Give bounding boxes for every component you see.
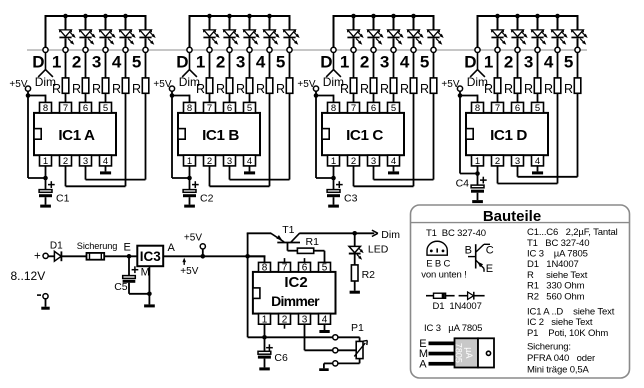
net Dim stub block C <box>333 53 335 70</box>
node bus junction B4 <box>267 14 272 19</box>
node bus junction A1 <box>63 14 68 19</box>
svg-text:+5V: +5V <box>184 233 202 244</box>
svg-text:5: 5 <box>103 103 108 114</box>
wire top supply bus block D <box>478 15 578 17</box>
node bus junction D2 <box>515 14 520 19</box>
wire LED4 cathode block B <box>269 38 271 47</box>
svg-text:4: 4 <box>322 314 328 325</box>
resistor R2 <box>351 265 358 281</box>
node terminal 2 block A <box>83 47 88 52</box>
svg-text:6: 6 <box>302 263 308 274</box>
node terminal 4 block C <box>411 47 416 52</box>
wire terminal 3 to resistor block C <box>393 53 395 78</box>
node terminal 2 block C <box>371 47 376 52</box>
net Dim stub block A <box>45 53 47 70</box>
svg-text:R: R <box>544 82 553 96</box>
wire IC3 M pin down <box>148 266 150 304</box>
svg-text:1: 1 <box>187 156 192 167</box>
wire pin3 IC2 to wiper <box>304 324 306 350</box>
wire LED3 anode block A <box>105 15 107 30</box>
node terminal 3 block B <box>247 47 252 52</box>
wire resistor col5 to pin3 block B <box>289 93 291 179</box>
capacitor C1 <box>45 178 47 190</box>
node P1 wiper terminal <box>333 348 338 353</box>
svg-text:R: R <box>276 82 285 96</box>
IC2 pin-1 notch <box>253 288 260 299</box>
wire resistor 2 to pin block D <box>517 93 519 102</box>
IC1 D pin-1 notch <box>466 129 473 140</box>
svg-text:4: 4 <box>103 156 108 167</box>
wire terminal 4 to resistor block D <box>557 53 559 78</box>
svg-text:IC 3 µA 7805: IC 3 µA 7805 <box>527 249 588 260</box>
node bus junction B1 <box>207 14 212 19</box>
svg-text:D: D <box>464 53 476 72</box>
svg-text:3: 3 <box>236 53 245 72</box>
LED D3 block C <box>388 30 400 37</box>
svg-text:7805: 7805 <box>454 343 464 363</box>
wire pin1 down block A <box>45 166 47 178</box>
pin 2 IC1 B <box>204 155 216 166</box>
node terminal D block D <box>475 47 480 52</box>
node bus junction C2 <box>371 14 376 19</box>
wire LED1 cathode block A <box>65 38 67 47</box>
wire LED1 cathode block C <box>353 38 355 47</box>
svg-text:1: 1 <box>196 53 205 72</box>
capacitor C5 <box>128 256 130 275</box>
node bus junction B2 <box>227 14 232 19</box>
wire +5V to pin8 IC2 <box>248 255 266 257</box>
pin 7 IC1 B <box>204 102 216 113</box>
wire LED2 cathode block B <box>229 38 231 47</box>
svg-text:C2: C2 <box>200 193 214 205</box>
LED D2 block D <box>512 30 524 37</box>
svg-text:1: 1 <box>484 53 493 72</box>
svg-text:D: D <box>320 53 332 72</box>
ground IC3/C5 <box>144 304 155 307</box>
svg-text:von unten !: von unten ! <box>421 270 466 281</box>
wire resistor 1 to pin block D <box>497 93 499 102</box>
wire resistor 1 to pin block A <box>65 93 67 102</box>
wire LED3 cathode block D <box>537 38 539 47</box>
pin 4 IC1 A <box>100 155 112 166</box>
LED D3 block B <box>244 30 256 37</box>
pin 8 IC1 D <box>472 102 484 113</box>
svg-text:2: 2 <box>360 53 369 72</box>
svg-text:+: + <box>34 251 41 263</box>
node terminal 3 block A <box>103 47 108 52</box>
LED D5 block C <box>428 30 440 37</box>
wire LED to R2 <box>354 255 356 265</box>
wire +5V to pin8 block B <box>172 95 190 97</box>
LED D2 block C <box>368 30 380 37</box>
svg-text:5: 5 <box>247 103 252 114</box>
stub pin2 IC2 <box>284 324 286 329</box>
node terminal 5 block A <box>143 47 148 52</box>
wire +5V rail block D <box>459 96 461 174</box>
pin 4 IC1 B <box>244 155 256 166</box>
wire LED4 cathode block A <box>125 38 127 47</box>
svg-text:PFRA 040 oder: PFRA 040 oder <box>527 353 595 364</box>
wire terminal 5 to resistor block B <box>289 53 291 78</box>
wire terminal 5 to resistor block A <box>145 53 147 78</box>
LED D3 block D <box>532 30 544 37</box>
diode D1 package drawing <box>426 295 434 297</box>
svg-text:R: R <box>112 82 121 96</box>
svg-text:1: 1 <box>340 53 349 72</box>
svg-text:IC1 A: IC1 A <box>58 127 95 144</box>
svg-text:C3: C3 <box>344 193 358 205</box>
wire trunk to P1 top <box>248 336 333 338</box>
pin 6 IC1 A <box>80 102 92 113</box>
svg-text:C6: C6 <box>274 352 288 364</box>
wire top supply bus block A <box>46 15 146 17</box>
svg-text:5: 5 <box>535 103 540 114</box>
svg-text:2: 2 <box>63 156 68 167</box>
ground pin4 block D <box>537 166 539 172</box>
wire D column riser block A <box>45 15 47 47</box>
resistor R (col 5) block D <box>574 78 581 93</box>
wire LED5 cathode block A <box>145 38 147 47</box>
wire pin1 down block D <box>477 166 479 174</box>
capacitor C2 <box>189 178 191 190</box>
wire D column riser block B <box>189 15 191 47</box>
wire terminal 5 to resistor block D <box>577 53 579 78</box>
wire LED1 cathode block D <box>497 38 499 47</box>
wire LED2 cathode block A <box>85 38 87 47</box>
node terminal 4 block B <box>267 47 272 52</box>
svg-text:R: R <box>340 82 349 96</box>
wire - to ground <box>45 299 47 307</box>
node terminal 5 block D <box>575 47 580 52</box>
wire LED5 cathode block B <box>289 38 291 47</box>
node bus junction B3 <box>247 14 252 19</box>
node M ground junction <box>147 292 152 297</box>
svg-text:P1: P1 <box>351 322 364 334</box>
wire resistor col5 to pin3 block D <box>577 93 579 177</box>
node bus junction A3 <box>103 14 108 19</box>
svg-text:B: B <box>465 244 472 256</box>
LED indicator <box>349 246 360 252</box>
svg-text:C4: C4 <box>456 178 470 190</box>
node pin1/C4 junction block D <box>475 171 480 176</box>
wire LED2 anode block A <box>85 15 87 30</box>
resistor R (col 1) block D <box>494 78 501 93</box>
wire +5V rail block C <box>315 96 317 179</box>
svg-text:R: R <box>564 82 573 96</box>
svg-text:D1: D1 <box>50 240 63 251</box>
ground C6 <box>259 367 270 370</box>
pin 8 IC1 A <box>40 102 52 113</box>
wire LED1 cathode block B <box>209 38 211 47</box>
wire D column riser block D <box>477 15 479 47</box>
wire terminal 2 to resistor block A <box>85 53 87 78</box>
svg-text:3: 3 <box>371 156 376 167</box>
svg-text:2: 2 <box>207 156 212 167</box>
svg-text:3: 3 <box>302 314 308 325</box>
svg-text:Sicherung: Sicherung <box>77 241 117 251</box>
IC1 C pin-1 notch <box>322 129 329 140</box>
wire P1 bottom terminal to pot <box>338 362 360 364</box>
pin 7 IC1 C <box>348 102 360 113</box>
svg-text:R: R <box>400 82 409 96</box>
wire pin1 down block C <box>333 166 335 178</box>
wire T1 base to R1 <box>287 243 289 251</box>
svg-text:R: R <box>360 82 369 96</box>
resistor R (col 3) block D <box>534 78 541 93</box>
pin 8 IC1 C <box>328 102 340 113</box>
node pin1/C3 junction block C <box>331 176 336 181</box>
pin 2 IC2 <box>279 314 291 325</box>
svg-text:R: R <box>484 82 493 96</box>
svg-text:C1...C6 2,2µF, Tantal: C1...C6 2,2µF, Tantal <box>527 227 618 238</box>
wire terminal 1 to resistor block A <box>65 53 67 78</box>
wire terminal 2 to resistor block B <box>229 53 231 78</box>
wire fuse to IC3 <box>104 255 137 257</box>
wire terminal 3 to resistor block B <box>249 53 251 78</box>
resistor R (col 1) block B <box>206 78 213 93</box>
wire LED3 anode block D <box>537 15 539 30</box>
svg-text:R: R <box>380 82 389 96</box>
wire terminal 2 to resistor block C <box>373 53 375 78</box>
node pin1/C6 junction <box>262 335 267 340</box>
svg-text:8: 8 <box>262 263 268 274</box>
wire resistor 1 to pin block C <box>353 93 355 102</box>
LED D1 block C <box>348 30 360 37</box>
wire terminal 4 to resistor block B <box>269 53 271 78</box>
ground pin4 IC2 <box>319 330 329 333</box>
pin 5 IC1 C <box>388 102 400 113</box>
wire pin1 down block B <box>189 166 191 178</box>
svg-text:1: 1 <box>52 53 61 72</box>
node terminal 3 block C <box>391 47 396 52</box>
pin 2 IC1 A <box>60 155 72 166</box>
svg-text:M: M <box>141 266 150 278</box>
wire resistor 2 to pin block C <box>373 93 375 102</box>
svg-text:1: 1 <box>475 156 480 167</box>
wire LED5 cathode block C <box>433 38 435 47</box>
pin 4 IC1 C <box>388 155 400 166</box>
LED D5 block B <box>284 30 296 37</box>
svg-text:R: R <box>524 82 533 96</box>
resistor R (col 3) block B <box>246 78 253 93</box>
ground C2 <box>184 205 195 208</box>
node terminal 1 block D <box>495 47 500 52</box>
IC IC2 Dimmer <box>253 272 336 314</box>
svg-text:8: 8 <box>187 103 192 114</box>
svg-text:D: D <box>32 53 44 72</box>
regulator IC3 <box>137 246 163 267</box>
svg-text:3: 3 <box>92 53 101 72</box>
node terminal 4 block A <box>123 47 128 52</box>
LED D4 block A <box>120 30 132 37</box>
wire resistor col4 to pin2 block C <box>413 93 415 186</box>
pin 6 IC1 C <box>368 102 380 113</box>
wire LED4 anode block A <box>125 15 127 30</box>
resistor R (col 2) block A <box>82 78 89 93</box>
wire Dim line to LED <box>354 233 356 246</box>
LED D1 block D <box>492 30 504 37</box>
node bus junction D3 <box>535 14 540 19</box>
diode D1 symbol <box>459 295 468 297</box>
pin 1 IC1 D <box>472 155 484 166</box>
svg-text:Dimmer: Dimmer <box>271 293 320 309</box>
node +5V trunk junction <box>245 254 250 259</box>
svg-text:R: R <box>420 82 429 96</box>
svg-text:5: 5 <box>132 53 141 72</box>
resistor R (col 2) block B <box>226 78 233 93</box>
wire +5V rail block B <box>171 96 173 179</box>
wire LED3 cathode block A <box>105 38 107 47</box>
wire resistor col4 to pin2 block B <box>269 93 271 186</box>
svg-text:6: 6 <box>515 103 520 114</box>
svg-text:R: R <box>52 82 61 96</box>
svg-text:8..12V: 8..12V <box>11 269 46 283</box>
svg-text:5: 5 <box>276 53 285 72</box>
node terminal D block A <box>43 47 48 52</box>
wire T1 collector to Dim <box>299 232 374 234</box>
pin 6 IC2 <box>299 262 311 272</box>
svg-text:Mini träge 0,5A: Mini träge 0,5A <box>527 364 589 375</box>
wire top supply bus block B <box>190 15 290 17</box>
wire D column riser block C <box>333 15 335 47</box>
pin 6 IC1 D <box>512 102 524 113</box>
svg-text:7: 7 <box>282 263 288 274</box>
node bus junction C1 <box>351 14 356 19</box>
node terminal 1 block B <box>207 47 212 52</box>
svg-text:1: 1 <box>262 314 268 325</box>
node bus junction D4 <box>555 14 560 19</box>
wire IC3 output +5V <box>163 255 265 257</box>
pin 1 IC2 <box>259 314 271 325</box>
resistor R (col 4) block C <box>410 78 417 93</box>
wire C5 to ground node <box>129 293 149 295</box>
wire resistor 1 to pin block B <box>209 93 211 102</box>
IC IC1 C <box>322 113 404 155</box>
svg-text:2: 2 <box>216 53 225 72</box>
resistor R (col 5) block A <box>142 78 149 93</box>
net Dim stub block D <box>477 53 479 70</box>
svg-text:2: 2 <box>282 314 288 325</box>
svg-text:3: 3 <box>524 53 533 72</box>
svg-text:4: 4 <box>256 53 266 72</box>
LED D5 block D <box>572 30 584 37</box>
wire trunk top to T1 emitter <box>247 232 271 234</box>
LED D4 block D <box>552 30 564 37</box>
svg-text:1: 1 <box>43 156 48 167</box>
resistor R (col 3) block C <box>390 78 397 93</box>
svg-text:R2 560 Ohm: R2 560 Ohm <box>527 291 585 302</box>
svg-text:Sicherung:: Sicherung: <box>527 341 571 352</box>
pin 8 IC1 B <box>184 102 196 113</box>
wire LED4 anode block B <box>269 15 271 30</box>
wire LED3 cathode block C <box>393 38 395 47</box>
svg-text:µA: µA <box>464 347 474 358</box>
net Dim output arrow <box>372 230 378 233</box>
node bus junction A2 <box>83 14 88 19</box>
IC IC1 B <box>178 113 260 155</box>
LED D2 block B <box>224 30 236 37</box>
resistor R (col 4) block B <box>266 78 273 93</box>
node bus junction D1 <box>495 14 500 19</box>
node terminal 3 block D <box>535 47 540 52</box>
IC IC1 D <box>466 113 548 155</box>
net Dim stub block B <box>189 53 191 70</box>
wire terminal 3 to resistor block A <box>105 53 107 78</box>
wire terminal 2 to resistor block D <box>517 53 519 78</box>
svg-text:A: A <box>168 242 176 254</box>
svg-text:7: 7 <box>207 103 212 114</box>
svg-text:2: 2 <box>495 156 500 167</box>
capacitor C3 <box>333 178 335 190</box>
pin 3 IC1 C <box>368 155 380 166</box>
capacitor C4 <box>477 174 479 186</box>
wire LED1 anode block D <box>497 15 499 30</box>
svg-text:T1 BC 327-40: T1 BC 327-40 <box>527 238 589 249</box>
wire terminal 4 to resistor block C <box>413 53 415 78</box>
IC IC1 A <box>34 113 116 155</box>
wire LED4 anode block C <box>413 15 415 30</box>
pin 5 IC2 <box>319 262 331 272</box>
wire LED3 anode block B <box>249 15 251 30</box>
svg-text:R1 330 Ohm: R1 330 Ohm <box>527 281 585 292</box>
ground P1 <box>319 368 329 371</box>
svg-text:D1 1N4007: D1 1N4007 <box>433 301 482 312</box>
wire resistor 3 to pin block C <box>393 93 395 102</box>
wire resistor col5 to pin3 block C <box>433 93 435 179</box>
parts box title separator <box>411 222 630 224</box>
svg-text:IC1 D: IC1 D <box>490 127 527 144</box>
node bus junction C4 <box>411 14 416 19</box>
node terminal D block B <box>187 47 192 52</box>
LED D4 block C <box>408 30 420 37</box>
pin 5 IC1 A <box>100 102 112 113</box>
svg-text:IC2: IC2 <box>284 274 307 291</box>
wire LED3 cathode block B <box>249 38 251 47</box>
svg-text:IC3: IC3 <box>140 249 162 264</box>
svg-text:C5: C5 <box>114 281 128 293</box>
wire resistor col4 to pin2 block D <box>557 93 559 183</box>
node terminal 5 block C <box>431 47 436 52</box>
svg-text:E: E <box>486 263 493 275</box>
svg-text:R2: R2 <box>362 269 376 281</box>
separator gray rail line <box>27 49 587 51</box>
node terminal 5 block B <box>287 47 292 52</box>
net +5V arrow marker <box>183 260 185 265</box>
svg-text:7: 7 <box>495 103 500 114</box>
wire terminal 1 to resistor block C <box>353 53 355 78</box>
wire resistor col5 to pin3 block A <box>145 93 147 179</box>
svg-text:IC1 A ..D siehe Text: IC1 A ..D siehe Text <box>527 306 615 317</box>
pin 3 IC1 D <box>512 155 524 166</box>
pin 7 IC1 A <box>60 102 72 113</box>
svg-text:7: 7 <box>63 103 68 114</box>
resistor R (col 2) block D <box>514 78 521 93</box>
node terminal D block C <box>331 47 336 52</box>
wire terminal 1 to resistor block D <box>497 53 499 78</box>
pin 2 IC1 D <box>492 155 504 166</box>
svg-text:4: 4 <box>112 53 122 72</box>
wire LED5 anode block A <box>145 15 147 30</box>
svg-text:E B C: E B C <box>426 259 450 270</box>
ground C4 <box>472 200 483 203</box>
node bus junction C3 <box>391 14 396 19</box>
node terminal 2 block B <box>227 47 232 52</box>
svg-text:R: R <box>196 82 205 96</box>
wire P1 bottom to ground <box>324 362 333 364</box>
svg-text:IC 3 µA 7805: IC 3 µA 7805 <box>424 323 482 334</box>
LED D5 block A <box>140 30 152 37</box>
node terminal 2 block D <box>515 47 520 52</box>
